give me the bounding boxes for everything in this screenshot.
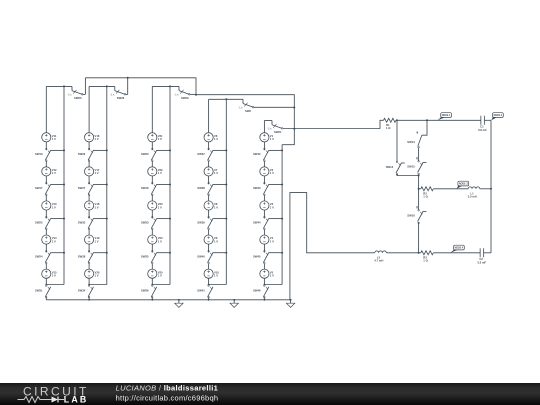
switch SW33 [141, 216, 157, 229]
wire tap col2 level 4 [93, 252, 107, 254]
svg-text:SW38: SW38 [197, 186, 205, 190]
switch SW26 [110, 86, 127, 100]
wire source V3 to switch [263, 210, 265, 218]
voltage source V12 [42, 167, 57, 176]
wire col5 right rail [281, 145, 283, 285]
wire switch SW35 to next source [151, 264, 153, 270]
wire tap col4 level 4 [213, 252, 227, 254]
svg-text:1 V: 1 V [95, 171, 99, 175]
node tap col5 level 2 [281, 184, 283, 186]
svg-text:1 V: 1 V [95, 137, 99, 141]
voltage source V1 [260, 133, 274, 142]
svg-text:-1 s: -1 s [268, 128, 273, 131]
switch SW15 [407, 157, 426, 174]
svg-text:1 V: 1 V [214, 274, 218, 278]
svg-text:1 V: 1 V [95, 239, 99, 243]
switch SW42 [253, 148, 269, 161]
svg-text:-1 s: -1 s [175, 93, 180, 96]
switch SW36 [141, 285, 157, 298]
wire bottom switch to ground bus [151, 297, 153, 300]
svg-text:SW23: SW23 [74, 96, 82, 100]
switch SW40 [197, 251, 213, 264]
switch SW28 [78, 251, 94, 264]
node tap col1 level 4 [63, 252, 65, 254]
svg-text:http://circuitlab.com/c696bqh: http://circuitlab.com/c696bqh [116, 393, 219, 402]
footer text [116, 383, 219, 402]
node right rail mid [490, 188, 492, 190]
wire switch SW25 to next source [45, 229, 47, 235]
node col5 bus junction [264, 299, 266, 301]
node NODE 2 [491, 113, 503, 121]
column 2 top wire [89, 85, 115, 87]
wire tap col4 level 2 [213, 184, 227, 186]
svg-text:-1 s: -1 s [68, 93, 73, 96]
switch SW38 [197, 182, 213, 195]
node tap col5 level 3 [281, 218, 283, 220]
wire right rail [490, 120, 492, 253]
svg-text:1 V: 1 V [52, 137, 56, 141]
wire source V23 to switch [151, 210, 153, 218]
wire tap col1 level 4 [51, 252, 65, 254]
node SW15 bottom junction [418, 175, 420, 177]
wire col4 left rail top [208, 99, 210, 132]
wire switch SW18 to next source [151, 195, 153, 201]
svg-text:SW24: SW24 [35, 254, 43, 258]
svg-text:1 V: 1 V [270, 137, 274, 141]
svg-text:1 V: 1 V [158, 171, 162, 175]
wire tap col3 level 3 [157, 218, 171, 220]
switch SW24 [35, 251, 51, 264]
voltage source V14 [42, 235, 57, 244]
svg-text:4.7 mH: 4.7 mH [374, 259, 383, 263]
wire col2 riser to bus [127, 78, 129, 95]
svg-text:SW2: SW2 [245, 109, 251, 113]
svg-text:0.8 mF: 0.8 mF [478, 128, 487, 132]
node col4 top-rail junction [225, 98, 227, 100]
wire tap col4 level 3 [213, 218, 227, 220]
wire R2 row start [419, 188, 421, 190]
svg-text:SW36: SW36 [141, 289, 149, 293]
node tap col4 level 1 [225, 149, 227, 151]
voltage source V3 [260, 201, 274, 210]
wire ground bus [46, 299, 290, 301]
wire bottom switch to ground bus [88, 297, 90, 300]
switch SW21 [268, 121, 381, 135]
svg-text:SW25: SW25 [35, 220, 43, 224]
wire switch SW32 to next source [88, 229, 90, 235]
wire tap col5 level 1 [269, 149, 283, 151]
svg-text:1 V: 1 V [270, 205, 274, 209]
wire node B to C1 [427, 119, 481, 121]
svg-text:SW17: SW17 [35, 186, 43, 190]
wire col2 right rail [106, 86, 108, 284]
wire L2 to R3 [386, 252, 420, 254]
switch SW39 [197, 216, 213, 229]
svg-text:SW42: SW42 [253, 152, 261, 156]
wire switch SW24 to next source [45, 264, 47, 270]
wire switch SW37 to next source [208, 161, 210, 167]
node col1 top-rail junction [63, 85, 65, 87]
svg-text:3.3 mH: 3.3 mH [468, 195, 477, 199]
node tap col5 level 1 [281, 149, 283, 151]
voltage source V17 [85, 167, 100, 176]
svg-text:-1 s: -1 s [239, 106, 244, 109]
switch SW35 [141, 251, 157, 264]
svg-text:SW15: SW15 [407, 164, 415, 168]
svg-text:SW18: SW18 [141, 186, 149, 190]
svg-text:SW21: SW21 [274, 130, 282, 134]
svg-text:SW30: SW30 [141, 152, 149, 156]
switch SW32 [78, 216, 94, 229]
ground [286, 299, 294, 308]
wire tap col2 level 3 [93, 218, 107, 220]
capacitor C1 [478, 116, 487, 132]
ground [175, 299, 183, 308]
voltage source V5 [260, 269, 274, 278]
wire source V21 to switch [151, 142, 153, 150]
node trunk junction col4 [293, 107, 295, 109]
switch SW17 [35, 182, 51, 195]
switch SW29 [175, 86, 197, 100]
svg-text:SW43: SW43 [253, 186, 261, 190]
voltage source V4 [260, 235, 274, 244]
wire source V2 to switch [263, 176, 265, 184]
wire col1 rail join [46, 284, 64, 286]
voltage source V23 [148, 201, 163, 210]
svg-text:NODE 3: NODE 3 [459, 184, 468, 186]
column 1 top wire [46, 85, 72, 87]
node tap col5 level 4 [281, 252, 283, 254]
wire tap col3 level 4 [157, 252, 171, 254]
voltage source V22 [148, 167, 163, 176]
node tap col2 level 4 [106, 252, 108, 254]
wire tap col3 level 1 [157, 149, 171, 151]
svg-text:1 V: 1 V [214, 205, 218, 209]
voltage source V11 [42, 133, 57, 142]
node tap col4 level 2 [225, 184, 227, 186]
wire col3 rail join [152, 284, 170, 286]
svg-text:SW28: SW28 [78, 254, 86, 258]
voltage source V24 [148, 235, 163, 244]
node R1 out [396, 119, 398, 121]
svg-text:3.3 mF: 3.3 mF [477, 260, 486, 264]
svg-text:LUCIANOB / lbaldissarelli1: LUCIANOB / lbaldissarelli1 [116, 383, 219, 392]
wire source V10 to bottom switch [208, 278, 210, 285]
wire source V12 to switch [45, 176, 47, 184]
switch SW2 [239, 99, 295, 113]
wire bottom switch to ground bus [208, 297, 210, 300]
wire SW14 feed [422, 120, 427, 135]
capacitor C2 [477, 248, 486, 264]
svg-text:SW27: SW27 [78, 186, 86, 190]
node col5 rail join [264, 284, 266, 286]
svg-text:SW22: SW22 [78, 152, 86, 156]
wire second bus [196, 95, 294, 145]
wire col3 left rail top [151, 86, 153, 132]
switch SW46 [253, 285, 269, 298]
wire tap col5 level 3 [269, 218, 283, 220]
wire R3 to C2 [433, 252, 480, 254]
wire switch SW43 to next source [263, 195, 265, 201]
wire source V4 to switch [263, 244, 265, 252]
voltage source V16 [85, 133, 100, 142]
wire source V18 to switch [88, 210, 90, 218]
wire col1 riser to bus [84, 78, 86, 95]
column 5 top wire [264, 120, 272, 122]
svg-text:1 V: 1 V [95, 205, 99, 209]
node col2 rail join [88, 284, 90, 286]
switch SW30 [141, 148, 157, 161]
node col4 rail join [208, 284, 210, 286]
wire tap col1 level 2 [51, 184, 65, 186]
wire bottom row left connector [290, 193, 375, 300]
node tap col1 level 3 [63, 218, 65, 220]
voltage source V21 [148, 133, 163, 142]
switch SW16 [407, 206, 426, 223]
wire switch SW19 to next source [45, 161, 47, 167]
switch SW37 [197, 148, 213, 161]
switch SW22 [78, 148, 94, 161]
inductor L2 [374, 251, 386, 263]
switch SW44 [253, 216, 269, 229]
svg-text:SW41: SW41 [197, 289, 205, 293]
wire tap col5 level 2 [269, 184, 283, 186]
resistor R2 [421, 187, 434, 199]
column 3 top wire [152, 85, 179, 87]
switch SW19 [35, 148, 51, 161]
svg-text:1 Ω: 1 Ω [423, 259, 428, 263]
column 4 top wire [209, 98, 243, 100]
wire source V20 to bottom switch [88, 278, 90, 285]
voltage source V6 [204, 133, 218, 142]
wire SW16 to bottom row [418, 222, 420, 252]
wire source V16 to switch [88, 142, 90, 150]
switch SW41 [197, 285, 213, 298]
svg-text:SW45: SW45 [253, 254, 261, 258]
wire col1 right rail [63, 86, 65, 284]
voltage source V18 [85, 201, 100, 210]
node trunk junction col5 [293, 128, 295, 130]
wire source V7 to switch [208, 176, 210, 184]
voltage source V13 [42, 201, 57, 210]
node NODE 1 [438, 113, 452, 121]
wire switch SW44 to next source [263, 229, 265, 235]
ground [230, 299, 238, 308]
svg-text:SW46: SW46 [253, 289, 261, 293]
node col3 rail join [151, 284, 153, 286]
node tap col2 level 3 [106, 218, 108, 220]
wire R1 to node A [396, 119, 397, 121]
wire source V22 to switch [151, 176, 153, 184]
svg-text:SW35: SW35 [141, 254, 149, 258]
wire tap col2 level 2 [93, 184, 107, 186]
node tap col3 level 2 [169, 184, 171, 186]
switch SW31 [35, 285, 51, 298]
svg-text:1 V: 1 V [52, 239, 56, 243]
node bus junction col2 [127, 77, 129, 79]
svg-text:SW44: SW44 [253, 220, 261, 224]
wire bottom switch to ground bus [263, 297, 265, 300]
wire source V6 to switch [208, 142, 210, 150]
node col2 top-rail junction [106, 85, 108, 87]
svg-text:1 Ω: 1 Ω [386, 126, 391, 130]
wire feed to R1 [380, 120, 384, 129]
voltage source V19 [85, 235, 100, 244]
wire col4 rail join [209, 284, 227, 286]
wire switch SW42 to next source [263, 161, 265, 167]
wire top bus [85, 78, 196, 95]
wire L1 to right rail [480, 188, 491, 190]
wire tap col3 level 2 [157, 184, 171, 186]
wire col5 left rail top [263, 121, 265, 133]
switch SW14 [407, 132, 422, 148]
svg-text:SW13: SW13 [386, 165, 394, 169]
svg-text:1 V: 1 V [52, 205, 56, 209]
svg-text:SW40: SW40 [197, 254, 205, 258]
switch SW45 [253, 251, 269, 264]
node NODE 3 [457, 181, 469, 189]
node tap col4 level 4 [225, 252, 227, 254]
wire source V11 to switch [45, 142, 47, 150]
node tap col2 level 2 [106, 184, 108, 186]
wire source V8 to switch [208, 210, 210, 218]
wire tap col2 level 1 [93, 149, 107, 151]
resistor R1 [384, 118, 397, 130]
wire source V5 to bottom switch [263, 278, 265, 285]
wire switch SW40 to next source [208, 264, 210, 270]
wire switch SW39 to next source [208, 229, 210, 235]
wire switch SW17 to next source [45, 195, 47, 201]
svg-text:1 V: 1 V [270, 171, 274, 175]
voltage source V25 [148, 269, 163, 278]
wire R2 tap to SW16 [418, 189, 420, 210]
wire source V17 to switch [88, 176, 90, 184]
node col4 bus junction [208, 299, 210, 301]
node NODE 4 [450, 245, 464, 253]
wire tap col4 level 1 [213, 149, 227, 151]
wire source V9 to switch [208, 244, 210, 252]
svg-text:NODE 4: NODE 4 [455, 247, 464, 250]
svg-text:SW33: SW33 [141, 220, 149, 224]
resistor R3 [421, 251, 434, 263]
node bus junction col3 [195, 94, 197, 96]
svg-text:1 V: 1 V [95, 274, 99, 278]
node SW14 tap [426, 119, 428, 121]
wire col4 right rail [225, 99, 227, 284]
wire col2 left rail top [88, 86, 90, 132]
svg-text:1 V: 1 V [158, 137, 162, 141]
voltage source V7 [204, 167, 218, 176]
wire col5 rail join [264, 284, 282, 286]
wire switch SW22 to next source [88, 161, 90, 167]
wire switch SW33 to next source [151, 229, 153, 235]
inductor L1 [468, 187, 480, 199]
svg-text:1 V: 1 V [158, 274, 162, 278]
svg-text:1 V: 1 V [214, 171, 218, 175]
wire switch SW27 to next source [88, 195, 90, 201]
wire switch SW30 to next source [151, 161, 153, 167]
wire source V14 to switch [45, 244, 47, 252]
wire C1 to corner [484, 119, 491, 121]
switch SW18 [141, 182, 157, 195]
node tap col3 level 1 [169, 149, 171, 151]
voltage source V9 [204, 235, 218, 244]
wire col3 right rail [169, 86, 171, 284]
switch SW23 [68, 86, 86, 100]
wire node A to node B [397, 119, 427, 121]
node col1 rail join [45, 284, 47, 286]
switch SW13 [386, 161, 405, 175]
wire source V19 to switch [88, 244, 90, 252]
switch SW27 [78, 182, 94, 195]
wire R2 to L1 [433, 188, 468, 190]
switch SW43 [253, 182, 269, 195]
svg-text:NODE 1: NODE 1 [442, 115, 451, 117]
wire source V13 to switch [45, 210, 47, 218]
svg-text:-1 s: -1 s [110, 93, 115, 96]
svg-text:1 V: 1 V [214, 137, 218, 141]
switch SW34 [78, 285, 94, 298]
CircuitLab logo [18, 385, 89, 405]
svg-text:NODE 2: NODE 2 [494, 115, 503, 117]
svg-text:SW19: SW19 [35, 152, 43, 156]
wire source V1 to switch [263, 142, 265, 150]
svg-text:SW34: SW34 [78, 289, 86, 293]
svg-text:SW32: SW32 [78, 220, 86, 224]
voltage source V2 [260, 167, 274, 176]
voltage source V15 [42, 269, 57, 278]
wire R1 junction to SW13 [396, 120, 398, 161]
node tap col4 level 3 [225, 218, 227, 220]
node R2 tap [418, 188, 420, 190]
svg-text:1 V: 1 V [52, 171, 56, 175]
node tap col1 level 1 [63, 149, 65, 151]
voltage source V20 [85, 269, 100, 278]
wire switch SW28 to next source [88, 264, 90, 270]
wire tap col1 level 3 [51, 218, 65, 220]
svg-text:SW39: SW39 [197, 220, 205, 224]
node tap col3 level 4 [169, 252, 171, 254]
node bottom row junction [418, 252, 420, 254]
node tap col2 level 1 [106, 149, 108, 151]
svg-text:SW16: SW16 [407, 213, 415, 217]
wire col2 rail join [89, 284, 107, 286]
svg-text:1 V: 1 V [214, 239, 218, 243]
wire switch SW38 to next source [208, 195, 210, 201]
node tap col1 level 2 [63, 184, 65, 186]
wire tap col5 level 4 [269, 252, 283, 254]
node col3 bus junction [151, 299, 153, 301]
wire C2 to corner [484, 252, 491, 254]
svg-text:1 V: 1 V [158, 239, 162, 243]
svg-text:SW26: SW26 [117, 96, 125, 100]
wire SW13 bottom [397, 174, 419, 176]
svg-text:1 V: 1 V [270, 274, 274, 278]
wire source V15 to bottom switch [45, 278, 47, 285]
svg-text:1 V: 1 V [158, 205, 162, 209]
svg-text:SW14: SW14 [407, 140, 415, 144]
voltage source V8 [204, 201, 218, 210]
wire switch SW45 to next source [263, 264, 265, 270]
svg-text:SW29: SW29 [181, 96, 189, 100]
svg-text:LAB: LAB [64, 395, 89, 405]
node tap col3 level 3 [169, 218, 171, 220]
wire source V25 to bottom switch [151, 278, 153, 285]
svg-text:1 Ω: 1 Ω [423, 195, 428, 199]
svg-text:1 V: 1 V [52, 274, 56, 278]
wire col1 left rail top [45, 86, 47, 132]
wire source V24 to switch [151, 244, 153, 252]
